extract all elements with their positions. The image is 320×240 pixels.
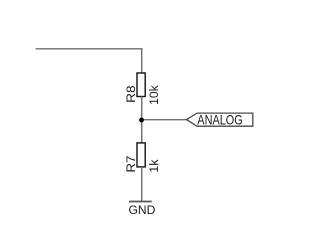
label R7 [124,155,138,172]
wire: junction down to R7 [141,120,143,144]
svg-text:GND: GND [129,203,156,217]
value 1k [147,159,161,173]
value 10k [147,84,161,105]
resistor R8 [137,73,145,97]
svg-text:10k: 10k [147,84,161,105]
svg-text:ANALOG: ANALOG [197,111,243,127]
svg-text:R7: R7 [124,155,138,172]
svg-text:R8: R8 [124,85,138,103]
wire: R7 bottom to ground [141,167,143,202]
wire: junction to ANALOG tag [142,119,187,121]
resistor R7 [137,143,145,167]
svg-text:1k: 1k [147,159,161,173]
net label ANALOG [187,111,253,127]
ground GND [129,202,156,218]
wire: vertical from corner down to R8 [141,48,143,73]
junction node [139,118,144,123]
wire: R8 bottom to junction [141,97,143,120]
wire: top horizontal net [36,48,143,50]
label R8 [124,85,138,103]
